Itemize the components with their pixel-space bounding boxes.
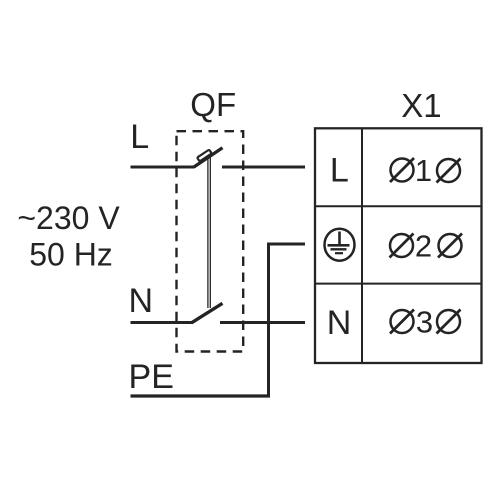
breaker QF thermal element box on blade [197,150,212,162]
mechanical linkage of QF poles [208,157,210,309]
svg-text:N: N [129,282,154,320]
screw terminal row 1 right [437,159,461,183]
screw terminal row 2 left [390,234,414,258]
wire PE horizontal segment to X1 pin 2 [269,243,306,246]
terminal block X1 vertical divider [361,128,363,363]
svg-text:QF: QF [190,86,236,123]
screw terminal row 3 left [390,310,414,334]
terminal block X1 outline [315,128,482,363]
wire N left segment [131,321,193,324]
breaker QF pole 2 blade (N) [192,303,223,323]
screw terminal row 3 right [437,310,461,334]
wire PE bottom segment [131,394,271,397]
svg-text:50 Hz: 50 Hz [29,237,113,273]
wire N right segment [220,321,305,324]
svg-text:N: N [327,304,352,342]
wire PE vertical segment [267,243,270,397]
screw terminal row 2 right [438,234,462,258]
wire L right segment [222,166,305,169]
terminal block X1 divider row1/row2 [315,205,482,207]
svg-text:L: L [330,151,349,189]
screw terminal row 1 left [390,158,414,182]
svg-text:2: 2 [415,229,432,264]
earth symbol on X1 middle terminal [325,229,355,261]
svg-text:X1: X1 [401,87,441,124]
svg-text:~230 V: ~230 V [17,200,120,236]
svg-text:3: 3 [416,305,433,340]
breaker QF pole 1 blade (L) [194,148,223,168]
svg-text:L: L [130,118,149,156]
svg-text:1: 1 [415,153,432,188]
wire L left segment [131,166,195,169]
svg-text:PE: PE [129,358,174,396]
breaker QF dashed enclosure [177,131,244,351]
terminal block X1 divider row2/row3 [315,283,482,285]
